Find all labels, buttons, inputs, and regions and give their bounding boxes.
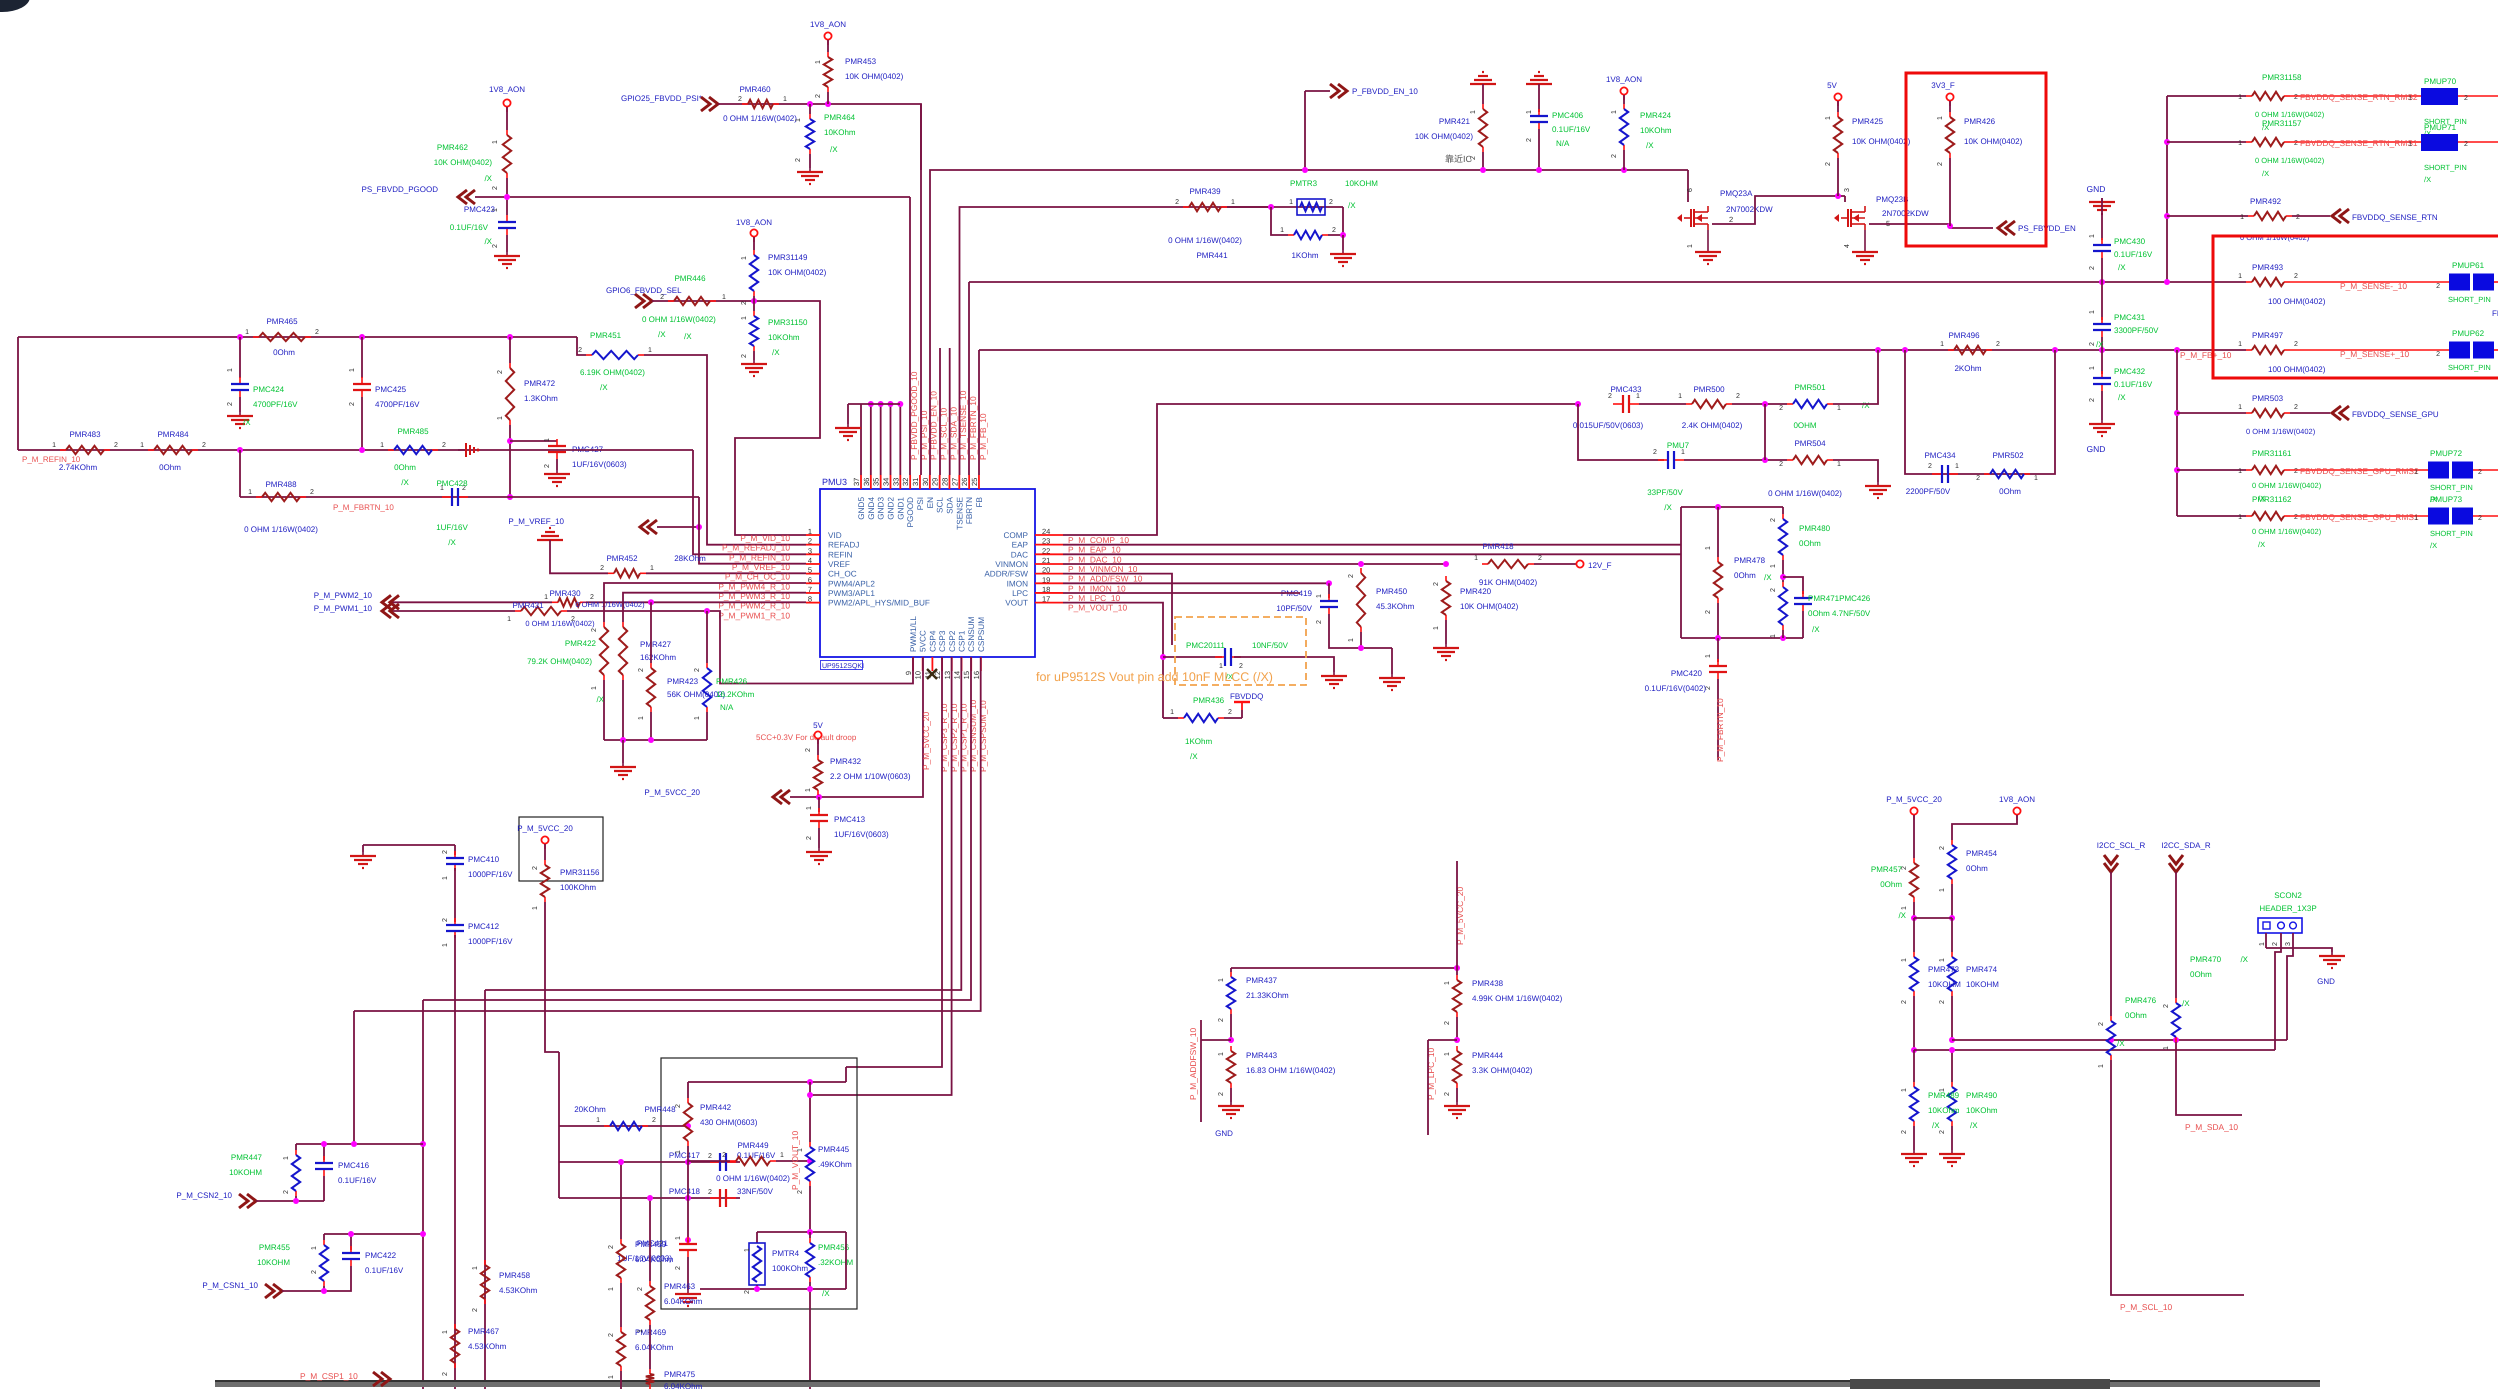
svg-text:/X: /X bbox=[1932, 1121, 1940, 1130]
svg-text:2: 2 bbox=[1939, 846, 1946, 850]
svg-text:2: 2 bbox=[1653, 449, 1657, 456]
svg-text:1: 1 bbox=[1636, 393, 1640, 400]
svg-text:/X: /X bbox=[1898, 911, 1906, 920]
svg-text:PMR492: PMR492 bbox=[2250, 197, 2282, 206]
svg-text:2.4K OHM(0402): 2.4K OHM(0402) bbox=[1682, 421, 1743, 430]
svg-text:1: 1 bbox=[795, 118, 802, 122]
svg-text:2: 2 bbox=[315, 329, 319, 336]
svg-text:2: 2 bbox=[1937, 162, 1944, 166]
svg-text:2: 2 bbox=[1939, 1000, 1946, 1004]
svg-text:1: 1 bbox=[1280, 227, 1284, 234]
svg-text:2: 2 bbox=[2294, 140, 2298, 147]
svg-text:PS_FBVDD_PGOOD: PS_FBVDD_PGOOD bbox=[362, 185, 439, 194]
svg-text:CSP3: CSP3 bbox=[938, 630, 947, 652]
svg-text:PMR432: PMR432 bbox=[830, 757, 862, 766]
svg-text:79.2K OHM(0402): 79.2K OHM(0402) bbox=[527, 657, 592, 666]
svg-text:PMR31161: PMR31161 bbox=[2252, 449, 2292, 458]
svg-text:1: 1 bbox=[1611, 110, 1618, 114]
svg-text:N/A: N/A bbox=[720, 703, 734, 712]
svg-text:20KOhm: 20KOhm bbox=[574, 1105, 606, 1114]
svg-text:PMR422: PMR422 bbox=[565, 639, 597, 648]
svg-text:1: 1 bbox=[806, 806, 813, 810]
svg-text:PMR452: PMR452 bbox=[606, 554, 638, 563]
svg-text:/X: /X bbox=[2096, 340, 2104, 349]
svg-text:10PF/50V: 10PF/50V bbox=[1276, 604, 1312, 613]
svg-text:2: 2 bbox=[2464, 141, 2468, 148]
svg-text:0 OHM 1/16W(0402): 0 OHM 1/16W(0402) bbox=[1768, 489, 1842, 498]
svg-text:2: 2 bbox=[741, 354, 748, 358]
svg-text:33PF/50V: 33PF/50V bbox=[1647, 488, 1683, 497]
svg-text:P_M_5VCC_20: P_M_5VCC_20 bbox=[921, 711, 931, 770]
svg-text:31: 31 bbox=[911, 478, 920, 486]
svg-text:PMC416: PMC416 bbox=[338, 1161, 370, 1170]
svg-text:P_M_CSPSUM_10: P_M_CSPSUM_10 bbox=[978, 700, 988, 772]
svg-text:0.1UF/16V: 0.1UF/16V bbox=[737, 1151, 776, 1160]
svg-text:1: 1 bbox=[442, 876, 449, 880]
svg-text:0Ohm: 0Ohm bbox=[1880, 880, 1902, 889]
svg-text:PMUP62: PMUP62 bbox=[2452, 329, 2485, 338]
svg-text:PMR420: PMR420 bbox=[1460, 587, 1492, 596]
svg-text:0 OHM 1/16W(0402): 0 OHM 1/16W(0402) bbox=[642, 315, 716, 324]
svg-text:2: 2 bbox=[497, 370, 504, 374]
svg-text:2: 2 bbox=[1939, 1130, 1946, 1134]
svg-text:P_M_IMON_10: P_M_IMON_10 bbox=[1068, 583, 1126, 593]
svg-text:0Ohm: 0Ohm bbox=[2190, 970, 2212, 979]
svg-text:1: 1 bbox=[227, 368, 234, 372]
svg-text:2.74KOhm: 2.74KOhm bbox=[59, 463, 98, 472]
svg-text:1: 1 bbox=[1681, 449, 1685, 456]
svg-text:P_M_SENSE-_10: P_M_SENSE-_10 bbox=[2340, 281, 2407, 291]
svg-text:P_M_VREF_10: P_M_VREF_10 bbox=[508, 517, 564, 526]
svg-text:I2CC_SCL_R: I2CC_SCL_R bbox=[2097, 841, 2146, 850]
svg-text:2: 2 bbox=[1218, 1018, 1225, 1022]
svg-text:/X: /X bbox=[2262, 169, 2269, 178]
svg-text:100KOhm: 100KOhm bbox=[560, 883, 596, 892]
svg-text:1: 1 bbox=[2163, 1046, 2170, 1050]
svg-text:1: 1 bbox=[544, 438, 551, 442]
svg-text:1: 1 bbox=[472, 1266, 479, 1270]
svg-text:4.99K OHM 1/16W(0402): 4.99K OHM 1/16W(0402) bbox=[1472, 994, 1563, 1003]
svg-text:1: 1 bbox=[780, 1152, 784, 1159]
svg-text:FBVDDQ_SENSE_GPU: FBVDDQ_SENSE_GPU bbox=[2352, 410, 2439, 419]
svg-text:10KOHM: 10KOHM bbox=[1966, 980, 1999, 989]
svg-text:10KOhm: 10KOhm bbox=[768, 333, 800, 342]
svg-text:6.04KOhm: 6.04KOhm bbox=[664, 1297, 703, 1306]
svg-text:P_M_VID_10: P_M_VID_10 bbox=[740, 533, 790, 543]
svg-text:PMC410: PMC410 bbox=[468, 855, 500, 864]
svg-text:PMR421: PMR421 bbox=[1439, 117, 1471, 126]
svg-text:2: 2 bbox=[227, 402, 234, 406]
svg-text:GND3: GND3 bbox=[877, 497, 886, 520]
svg-text:1: 1 bbox=[507, 616, 511, 623]
svg-text:PMR31158: PMR31158 bbox=[2262, 73, 2302, 82]
svg-text:PMC413: PMC413 bbox=[834, 815, 866, 824]
svg-text:1: 1 bbox=[1940, 341, 1944, 348]
svg-text:PMR478: PMR478 bbox=[1734, 556, 1766, 565]
svg-text:1: 1 bbox=[1939, 888, 1946, 892]
svg-text:162KOhm: 162KOhm bbox=[640, 653, 676, 662]
svg-text:10K OHM(0402): 10K OHM(0402) bbox=[1964, 137, 2023, 146]
svg-text:PMC423: PMC423 bbox=[464, 205, 496, 214]
svg-text:4.53KOhm: 4.53KOhm bbox=[499, 1286, 538, 1295]
svg-text:P_M_LPC_10: P_M_LPC_10 bbox=[1068, 593, 1120, 603]
svg-text:10KOHM: 10KOHM bbox=[229, 1168, 262, 1177]
svg-text:1: 1 bbox=[1770, 634, 1777, 638]
svg-text:PMUP72: PMUP72 bbox=[2430, 449, 2463, 458]
svg-text:2: 2 bbox=[708, 1189, 712, 1196]
svg-text:SHORT_PIN: SHORT_PIN bbox=[2448, 363, 2491, 372]
svg-text:P_M_CSNSUM_10: P_M_CSNSUM_10 bbox=[968, 700, 978, 772]
svg-text:HEADER_1X3P: HEADER_1X3P bbox=[2259, 904, 2316, 913]
svg-text:2: 2 bbox=[1901, 1130, 1908, 1134]
svg-text:P_M_5VCC_20: P_M_5VCC_20 bbox=[1886, 795, 1942, 804]
svg-text:2: 2 bbox=[2294, 404, 2298, 411]
svg-text:1: 1 bbox=[2408, 141, 2412, 148]
svg-text:4: 4 bbox=[1844, 244, 1851, 248]
svg-text:1: 1 bbox=[1837, 461, 1841, 468]
svg-text:PMR488: PMR488 bbox=[265, 480, 297, 489]
svg-text:PMR438: PMR438 bbox=[1472, 979, 1504, 988]
svg-text:1: 1 bbox=[1901, 906, 1908, 910]
svg-text:2: 2 bbox=[492, 186, 499, 190]
svg-text:1: 1 bbox=[1289, 199, 1293, 206]
svg-text:35: 35 bbox=[872, 478, 881, 486]
svg-text:.32KOHM: .32KOHM bbox=[818, 1258, 853, 1267]
svg-text:1: 1 bbox=[1433, 626, 1440, 630]
svg-text:PMR447: PMR447 bbox=[231, 1153, 263, 1162]
svg-text:0Ohm 4.7NF/50V: 0Ohm 4.7NF/50V bbox=[1808, 609, 1871, 618]
svg-text:3V3_F: 3V3_F bbox=[1931, 81, 1955, 90]
svg-text:1: 1 bbox=[608, 1287, 615, 1291]
svg-text:PMR480: PMR480 bbox=[1799, 524, 1831, 533]
svg-text:PMR426: PMR426 bbox=[1964, 117, 1996, 126]
svg-text:21.33KOhm: 21.33KOhm bbox=[1246, 991, 1289, 1000]
svg-text:/X: /X bbox=[1646, 141, 1654, 150]
svg-text:1: 1 bbox=[638, 716, 645, 720]
svg-text:0 OHM 1/16W(0402): 0 OHM 1/16W(0402) bbox=[2255, 110, 2325, 119]
svg-text:PMC430: PMC430 bbox=[2114, 237, 2146, 246]
svg-text:FB: FB bbox=[975, 496, 984, 507]
svg-text:SHORT_PIN: SHORT_PIN bbox=[2424, 163, 2467, 172]
svg-text:6.04KOhm: 6.04KOhm bbox=[664, 1382, 703, 1389]
svg-text:PMR446: PMR446 bbox=[674, 274, 706, 283]
svg-text:PMR470: PMR470 bbox=[2190, 955, 2222, 964]
svg-text:0Ohm: 0Ohm bbox=[1799, 539, 1821, 548]
svg-text:PMR462: PMR462 bbox=[437, 143, 469, 152]
svg-text:1: 1 bbox=[497, 416, 504, 420]
svg-text:P_M_DAC_10: P_M_DAC_10 bbox=[1068, 554, 1122, 564]
svg-text:PMR483: PMR483 bbox=[69, 430, 101, 439]
svg-text:/X: /X bbox=[772, 348, 780, 357]
svg-text:/X: /X bbox=[2430, 541, 2437, 550]
svg-text:2: 2 bbox=[1329, 199, 1333, 206]
svg-text:5V: 5V bbox=[813, 721, 823, 730]
svg-text:2200PF/50V: 2200PF/50V bbox=[1906, 487, 1951, 496]
svg-text:PMR451: PMR451 bbox=[590, 331, 622, 340]
svg-text:10KOhm: 10KOhm bbox=[1640, 126, 1672, 135]
svg-text:33NF/50V: 33NF/50V bbox=[737, 1187, 774, 1196]
svg-text:PMR31149: PMR31149 bbox=[768, 253, 808, 262]
svg-text:FBVDDQ: FBVDDQ bbox=[1230, 692, 1263, 701]
svg-text:0 OHM 1/16W(0402): 0 OHM 1/16W(0402) bbox=[244, 525, 318, 534]
svg-text:PMR450: PMR450 bbox=[1376, 587, 1408, 596]
svg-text:2: 2 bbox=[2436, 351, 2440, 358]
svg-text:1: 1 bbox=[1939, 958, 1946, 962]
svg-text:1: 1 bbox=[1170, 709, 1174, 716]
svg-text:1UF/16V(0603): 1UF/16V(0603) bbox=[834, 830, 889, 839]
svg-text:1: 1 bbox=[815, 60, 822, 64]
svg-text:26: 26 bbox=[960, 478, 969, 486]
svg-text:/X: /X bbox=[658, 330, 666, 339]
svg-text:2: 2 bbox=[1526, 138, 1533, 142]
svg-text:1: 1 bbox=[2238, 404, 2242, 411]
svg-text:P_M_SENSE+_10: P_M_SENSE+_10 bbox=[2340, 349, 2409, 359]
svg-text:2: 2 bbox=[2464, 95, 2468, 102]
svg-text:1.3KOhm: 1.3KOhm bbox=[524, 394, 558, 403]
svg-text:2: 2 bbox=[349, 402, 356, 406]
svg-text:33: 33 bbox=[891, 478, 900, 486]
svg-text:1: 1 bbox=[1219, 663, 1223, 670]
svg-text:1: 1 bbox=[2034, 475, 2038, 482]
svg-text:/X: /X bbox=[2258, 540, 2265, 549]
svg-text:PMTR3: PMTR3 bbox=[1290, 179, 1318, 188]
svg-text:PMR436: PMR436 bbox=[1193, 696, 1225, 705]
svg-text:3.3K OHM(0402): 3.3K OHM(0402) bbox=[1472, 1066, 1533, 1075]
svg-text:UP9512SQKI: UP9512SQKI bbox=[822, 663, 864, 670]
svg-text:29: 29 bbox=[931, 478, 940, 486]
svg-text:PMR442: PMR442 bbox=[700, 1103, 732, 1112]
svg-text:0Ohm: 0Ohm bbox=[2125, 1011, 2147, 1020]
svg-text:/X: /X bbox=[2118, 393, 2126, 402]
svg-text:PMUP61: PMUP61 bbox=[2452, 261, 2485, 270]
svg-text:1: 1 bbox=[591, 686, 598, 690]
svg-text:1: 1 bbox=[1705, 546, 1712, 550]
svg-text:1KOhm: 1KOhm bbox=[1291, 251, 1318, 260]
svg-text:2: 2 bbox=[1996, 341, 2000, 348]
svg-text:1: 1 bbox=[1218, 978, 1225, 982]
svg-text:2: 2 bbox=[1901, 866, 1908, 870]
svg-text:4700PF/16V: 4700PF/16V bbox=[375, 400, 420, 409]
svg-text:2: 2 bbox=[1433, 582, 1440, 586]
svg-text:45.3KOhm: 45.3KOhm bbox=[1376, 602, 1415, 611]
svg-text:1: 1 bbox=[1770, 564, 1777, 568]
svg-text:P_M_COMP_10: P_M_COMP_10 bbox=[1068, 535, 1129, 545]
svg-text:P_M_CSP3_R_10: P_M_CSP3_R_10 bbox=[939, 703, 949, 772]
svg-text:P_M_CSP1_R_10: P_M_CSP1_R_10 bbox=[959, 703, 969, 772]
svg-text:2: 2 bbox=[1976, 475, 1980, 482]
svg-text:430 OHM(0603): 430 OHM(0603) bbox=[700, 1118, 758, 1127]
svg-text:PMC433: PMC433 bbox=[1610, 385, 1642, 394]
svg-text:PMR489: PMR489 bbox=[1928, 1091, 1960, 1100]
svg-text:FBVDDQ_SENSE_GPU_RMS2: FBVDDQ_SENSE_GPU_RMS2 bbox=[2300, 466, 2419, 476]
svg-text:PMR426: PMR426 bbox=[716, 677, 748, 686]
svg-text:6.19K OHM(0402): 6.19K OHM(0402) bbox=[580, 368, 645, 377]
svg-text:P_M_PWM2_10: P_M_PWM2_10 bbox=[314, 591, 373, 600]
svg-text:1: 1 bbox=[1474, 555, 1478, 562]
svg-text:PWM4/APL2: PWM4/APL2 bbox=[828, 579, 875, 588]
svg-text:1: 1 bbox=[1316, 594, 1323, 598]
svg-text:/X: /X bbox=[2117, 1039, 2125, 1048]
svg-text:1: 1 bbox=[1444, 1052, 1451, 1056]
svg-text:PMR456: PMR456 bbox=[818, 1243, 850, 1252]
svg-text:2: 2 bbox=[202, 442, 206, 449]
svg-text:1: 1 bbox=[741, 256, 748, 260]
svg-text:14: 14 bbox=[953, 671, 962, 679]
svg-text:LPC: LPC bbox=[1012, 589, 1028, 598]
svg-text:PMR485: PMR485 bbox=[397, 427, 429, 436]
svg-text:1: 1 bbox=[2238, 341, 2242, 348]
svg-text:PMR496: PMR496 bbox=[1948, 331, 1980, 340]
svg-text:I2CC_SDA_R: I2CC_SDA_R bbox=[2161, 841, 2211, 850]
svg-text:0.1UF/16V: 0.1UF/16V bbox=[1552, 125, 1591, 134]
svg-text:2: 2 bbox=[2163, 1004, 2170, 1008]
svg-text:2: 2 bbox=[442, 850, 449, 854]
svg-text:FBVDDQ_SENSE_RTN_RMS1: FBVDDQ_SENSE_RTN_RMS1 bbox=[2300, 138, 2418, 148]
svg-text:1: 1 bbox=[741, 316, 748, 320]
svg-text:16.2KOhm: 16.2KOhm bbox=[716, 690, 755, 699]
svg-text:PMR31157: PMR31157 bbox=[2262, 119, 2302, 128]
svg-text:/X: /X bbox=[484, 174, 492, 183]
svg-text:1: 1 bbox=[2408, 95, 2412, 102]
svg-text:PMR458: PMR458 bbox=[499, 1271, 531, 1280]
svg-text:PMR31156: PMR31156 bbox=[560, 868, 600, 877]
svg-text:2: 2 bbox=[2294, 94, 2298, 101]
svg-text:PMR493: PMR493 bbox=[2252, 263, 2284, 272]
svg-text:P_M_ADD/FSW_10: P_M_ADD/FSW_10 bbox=[1068, 574, 1143, 584]
svg-text:GND: GND bbox=[2087, 444, 2106, 454]
svg-text:P_M_PWM1_R_10: P_M_PWM1_R_10 bbox=[718, 610, 790, 620]
svg-text:16.83 OHM 1/16W(0402): 16.83 OHM 1/16W(0402) bbox=[1246, 1066, 1336, 1075]
svg-text:PMR464: PMR464 bbox=[824, 113, 856, 122]
svg-text:PMR502: PMR502 bbox=[1992, 451, 2024, 460]
svg-text:PMR467: PMR467 bbox=[468, 1327, 500, 1336]
svg-text:2.2 OHM 1/10W(0603): 2.2 OHM 1/10W(0603) bbox=[830, 772, 911, 781]
svg-text:0Ohm: 0Ohm bbox=[273, 348, 295, 357]
svg-text:/X: /X bbox=[1764, 573, 1772, 582]
svg-text:1: 1 bbox=[1955, 463, 1959, 470]
svg-text:0.015UF/50V(0603): 0.015UF/50V(0603) bbox=[1573, 421, 1644, 430]
svg-text:IMON: IMON bbox=[1007, 579, 1028, 588]
svg-text:2: 2 bbox=[1175, 199, 1179, 206]
svg-text:2: 2 bbox=[1218, 1092, 1225, 1096]
svg-text:/X: /X bbox=[448, 538, 456, 547]
svg-text:5V: 5V bbox=[1827, 81, 1837, 90]
svg-text:0 OHM 1/16W(0402): 0 OHM 1/16W(0402) bbox=[2246, 427, 2316, 436]
svg-text:P_M_SDA_10: P_M_SDA_10 bbox=[2185, 1122, 2238, 1132]
svg-text:2: 2 bbox=[544, 464, 551, 468]
svg-text:4700PF/16V: 4700PF/16V bbox=[253, 400, 298, 409]
svg-text:2: 2 bbox=[532, 866, 539, 870]
svg-text:SCL: SCL bbox=[936, 497, 945, 513]
svg-text:1: 1 bbox=[2240, 214, 2244, 221]
svg-text:/X: /X bbox=[1812, 625, 1820, 634]
svg-text:2: 2 bbox=[1608, 393, 1612, 400]
svg-text:10K OHM(0402): 10K OHM(0402) bbox=[1852, 137, 1911, 146]
svg-text:10K OHM(0402): 10K OHM(0402) bbox=[1460, 602, 1519, 611]
svg-text:1: 1 bbox=[2238, 514, 2242, 521]
svg-text:PMR423: PMR423 bbox=[667, 677, 699, 686]
svg-text:2: 2 bbox=[806, 836, 813, 840]
svg-text:PMC425: PMC425 bbox=[375, 385, 407, 394]
svg-text:2: 2 bbox=[722, 1152, 726, 1159]
svg-text:1: 1 bbox=[2414, 515, 2418, 522]
svg-text:P_M_SCL_10: P_M_SCL_10 bbox=[2120, 1302, 2172, 1312]
svg-text:2: 2 bbox=[1348, 574, 1355, 578]
svg-text:PMQ23A: PMQ23A bbox=[1720, 189, 1753, 198]
svg-text:2: 2 bbox=[600, 565, 604, 572]
svg-text:3: 3 bbox=[2285, 942, 2292, 946]
svg-text:2: 2 bbox=[744, 1290, 751, 1294]
svg-text:PMR476: PMR476 bbox=[2125, 996, 2157, 1005]
svg-text:PMR500: PMR500 bbox=[1693, 385, 1725, 394]
svg-text:PMR31150: PMR31150 bbox=[768, 318, 808, 327]
svg-text:/X: /X bbox=[243, 418, 251, 427]
svg-text:FBVDDQ_SENSE_GPU_RMS1: FBVDDQ_SENSE_GPU_RMS1 bbox=[2300, 512, 2419, 522]
svg-text:for uP9512S Vout pin add 10nF: for uP9512S Vout pin add 10nF MLCC (/X) bbox=[1036, 670, 1273, 684]
svg-text:CSP2: CSP2 bbox=[948, 630, 957, 652]
svg-text:100 OHM(0402): 100 OHM(0402) bbox=[2268, 365, 2326, 374]
svg-text:0Ohm: 0Ohm bbox=[1999, 487, 2021, 496]
svg-text:1: 1 bbox=[805, 788, 812, 792]
svg-text:PMR501: PMR501 bbox=[1794, 383, 1826, 392]
svg-text:15: 15 bbox=[962, 671, 971, 679]
svg-text:1: 1 bbox=[283, 1156, 290, 1160]
svg-text:P_M_5VCC_20: P_M_5VCC_20 bbox=[644, 788, 700, 797]
svg-text:EAP: EAP bbox=[1012, 541, 1029, 550]
svg-text:1: 1 bbox=[1470, 110, 1477, 114]
svg-text:2: 2 bbox=[2478, 469, 2482, 476]
svg-text:CSP4: CSP4 bbox=[928, 630, 937, 652]
svg-text:1: 1 bbox=[1526, 110, 1533, 114]
svg-text:TSENSE: TSENSE bbox=[955, 496, 964, 529]
svg-text:PMR490: PMR490 bbox=[1966, 1091, 1998, 1100]
svg-text:1: 1 bbox=[442, 1330, 449, 1334]
svg-text:CSNSUM: CSNSUM bbox=[967, 616, 976, 652]
svg-text:1: 1 bbox=[650, 565, 654, 572]
svg-text:2: 2 bbox=[1332, 227, 1336, 234]
svg-text:2: 2 bbox=[2296, 214, 2300, 221]
svg-text:2: 2 bbox=[638, 668, 645, 672]
svg-text:PMR424: PMR424 bbox=[1640, 111, 1672, 120]
svg-text:10KOhm: 10KOhm bbox=[1966, 1106, 1998, 1115]
svg-text:2: 2 bbox=[1611, 154, 1618, 158]
svg-text:2: 2 bbox=[805, 748, 812, 752]
svg-text:PMR472: PMR472 bbox=[524, 379, 556, 388]
svg-text:PMR448: PMR448 bbox=[644, 1105, 676, 1114]
svg-text:PMR439: PMR439 bbox=[1189, 187, 1221, 196]
svg-text:1: 1 bbox=[248, 489, 252, 496]
svg-text:/X: /X bbox=[1664, 503, 1672, 512]
svg-text:PMC412: PMC412 bbox=[468, 922, 500, 931]
svg-text:1: 1 bbox=[311, 1246, 318, 1250]
svg-text:1: 1 bbox=[1678, 393, 1682, 400]
svg-text:/X: /X bbox=[830, 145, 838, 154]
svg-text:0 OHM 1/16W(0402): 0 OHM 1/16W(0402) bbox=[716, 1174, 790, 1183]
svg-text:2: 2 bbox=[675, 1266, 682, 1270]
svg-text:6.04KOhm: 6.04KOhm bbox=[635, 1255, 674, 1264]
svg-text:1: 1 bbox=[245, 329, 249, 336]
svg-text:2: 2 bbox=[1779, 405, 1783, 412]
svg-text:PMR465: PMR465 bbox=[266, 317, 298, 326]
svg-text:PMU3: PMU3 bbox=[822, 477, 847, 487]
svg-text:PMR31162: PMR31162 bbox=[2252, 495, 2292, 504]
svg-text:2: 2 bbox=[694, 668, 701, 672]
svg-text:2: 2 bbox=[578, 347, 582, 354]
svg-text:10K OHM(0402): 10K OHM(0402) bbox=[434, 158, 493, 167]
svg-text:2: 2 bbox=[2272, 942, 2279, 946]
svg-text:PMR427: PMR427 bbox=[640, 640, 672, 649]
svg-text:GND1: GND1 bbox=[896, 497, 905, 520]
